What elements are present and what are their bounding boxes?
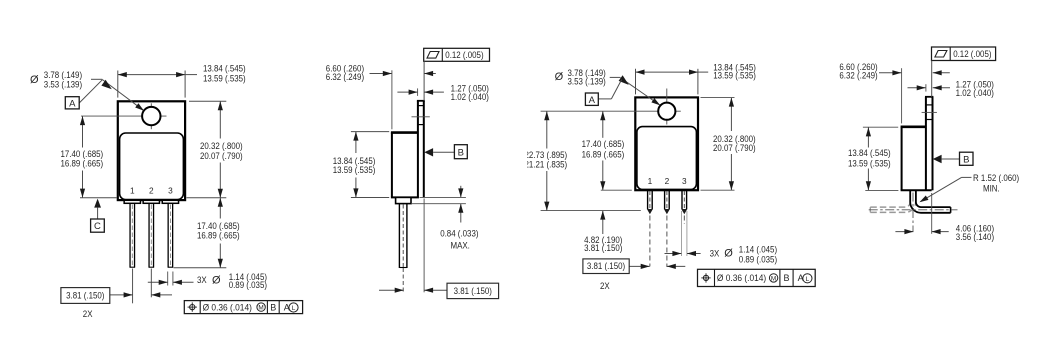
svg-text:MAX.: MAX. [451,240,470,250]
svg-text:3X: 3X [197,275,207,285]
svg-text:13.59 (.535): 13.59 (.535) [333,165,376,175]
svg-text:Ø: Ø [212,274,221,286]
svg-text:2X: 2X [83,309,93,319]
svg-text:Ø: Ø [724,248,733,260]
svg-text:13.59 (.535): 13.59 (.535) [848,158,891,168]
svg-text:L: L [806,276,810,283]
svg-text:R 1.52 (.060): R 1.52 (.060) [973,173,1019,183]
svg-text:3.81 (.150): 3.81 (.150) [66,290,104,300]
svg-text:16.89 (.665): 16.89 (.665) [197,230,240,240]
svg-text:Ø: Ø [30,74,39,86]
svg-text:MIN.: MIN. [983,183,1000,193]
svg-text:17.40 (.685): 17.40 (.685) [61,149,104,159]
svg-text:13.59 (.535): 13.59 (.535) [713,70,756,80]
svg-text:20.32 (.800): 20.32 (.800) [200,141,243,151]
svg-text:M: M [771,276,776,283]
svg-text:20.07 (.790): 20.07 (.790) [200,151,243,161]
svg-text:0.89 (.035): 0.89 (.035) [229,280,267,290]
svg-text:Ø 0.36 (.014): Ø 0.36 (.014) [203,302,252,312]
svg-text:0.12 (.005): 0.12 (.005) [445,50,483,60]
svg-text:C: C [94,221,101,232]
svg-text:L: L [292,305,296,312]
svg-text:M: M [258,305,263,312]
svg-text:3X: 3X [710,249,720,259]
svg-text:13.84 (.545): 13.84 (.545) [848,148,891,158]
svg-text:17.40 (.685): 17.40 (.685) [582,139,625,149]
svg-text:16.89 (.665): 16.89 (.665) [582,149,625,159]
svg-text:20.07 (.790): 20.07 (.790) [713,143,756,153]
svg-text:6.32 (.249): 6.32 (.249) [326,72,364,82]
svg-text:A: A [589,95,596,106]
svg-text:2: 2 [149,186,154,196]
svg-text:3.81 (.150): 3.81 (.150) [454,286,492,296]
svg-text:1: 1 [648,176,653,186]
svg-text:3.53 (.139): 3.53 (.139) [568,76,606,86]
svg-text:0.12 (.005): 0.12 (.005) [953,49,991,59]
svg-text:13.59 (.535): 13.59 (.535) [203,73,246,83]
svg-text:B: B [963,154,969,165]
svg-text:6.32 (.249): 6.32 (.249) [839,71,877,81]
svg-text:B: B [458,147,464,158]
svg-text:Ø 0.36 (.014): Ø 0.36 (.014) [717,273,766,283]
svg-text:1: 1 [130,186,135,196]
svg-text:Ø: Ø [555,71,564,83]
svg-text:0.89 (.035): 0.89 (.035) [739,254,777,264]
svg-text:1.02 (.040): 1.02 (.040) [451,92,489,102]
svg-text:16.89 (.665): 16.89 (.665) [61,159,104,169]
svg-text:3: 3 [682,176,687,186]
svg-text:3.81 (.150): 3.81 (.150) [584,243,622,253]
svg-text:3.81 (.150): 3.81 (.150) [587,261,625,271]
svg-text:21.21 (.835): 21.21 (.835) [525,160,568,170]
svg-text:A: A [69,98,76,109]
svg-text:2: 2 [665,176,670,186]
svg-text:3.56 (.140): 3.56 (.140) [956,232,994,242]
svg-text:B: B [783,273,789,283]
svg-text:3.53 (.139): 3.53 (.139) [44,80,82,90]
svg-text:1.14 (.045): 1.14 (.045) [739,244,777,254]
svg-text:22.73 (.895): 22.73 (.895) [525,150,568,160]
svg-text:2X: 2X [600,281,610,291]
svg-text:13.84 (.545): 13.84 (.545) [203,63,246,73]
svg-text:0.84 (.033): 0.84 (.033) [440,228,478,238]
svg-text:3: 3 [168,186,173,196]
svg-text:B: B [270,302,276,312]
svg-text:1.02 (.040): 1.02 (.040) [956,88,994,98]
